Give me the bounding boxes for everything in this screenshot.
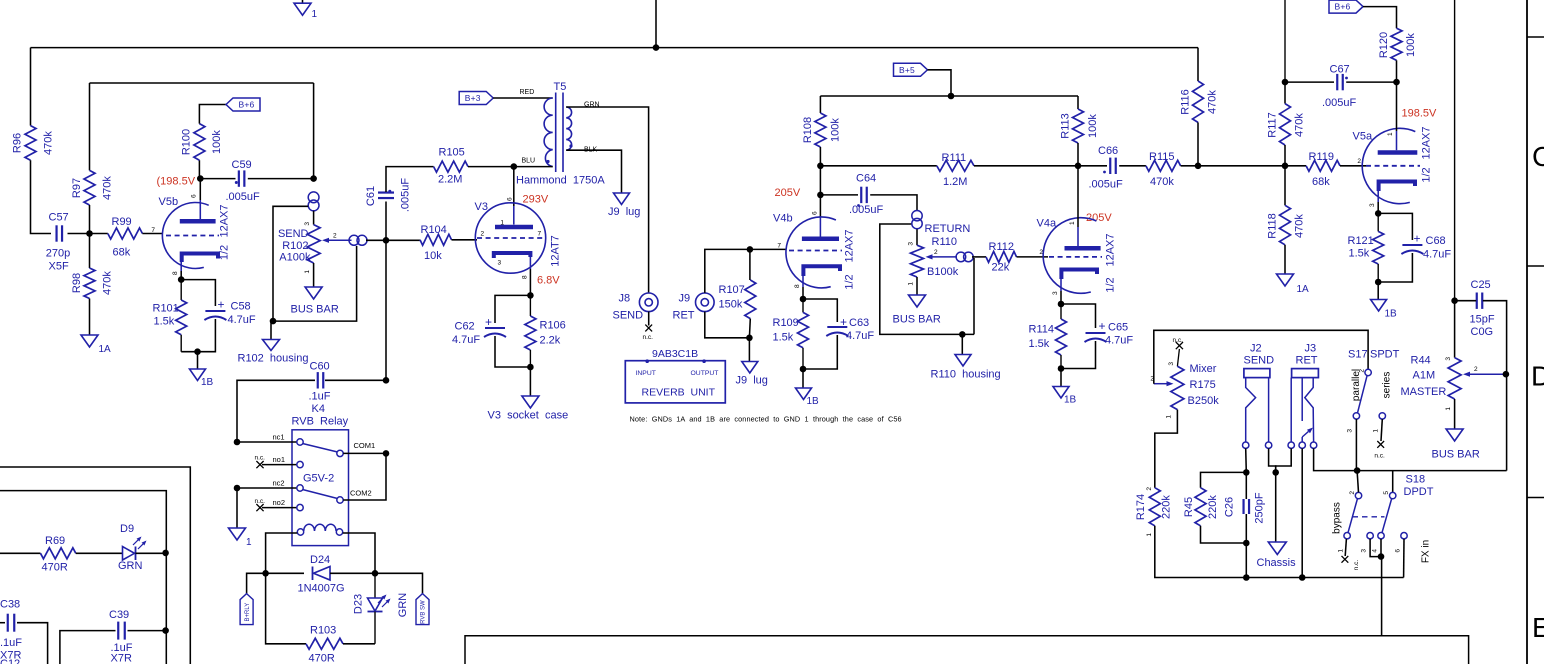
- V4a grid pin 2: [1049, 256, 1102, 258]
- wire S18 pin2 up: [1357, 471, 1358, 493]
- wire to R117 node: [1198, 165, 1285, 167]
- svg-text:GRN: GRN: [397, 593, 409, 618]
- C66 polarity dot: [1103, 171, 1106, 174]
- junction J9 bottom node: [746, 335, 753, 342]
- relay coil K4: [297, 529, 303, 535]
- svg-text:C65: C65: [1108, 322, 1128, 334]
- wire coil right: [343, 533, 375, 573]
- wire V3 ground lead: [529, 367, 531, 396]
- svg-text:6: 6: [1395, 549, 1402, 553]
- wire plate to C59: [200, 178, 235, 180]
- wire J3 ring to bus: [1301, 448, 1303, 577]
- S18 throw 3: [1367, 533, 1373, 539]
- S18 blade b: [1382, 499, 1392, 533]
- svg-text:470k: 470k: [43, 131, 55, 155]
- V4a cathode pin 3: [1061, 270, 1097, 280]
- svg-text:R115: R115: [1149, 151, 1174, 163]
- wire top bus B+ node: [31, 47, 1199, 49]
- svg-text:R102: R102: [282, 240, 308, 252]
- LED D9: [123, 547, 135, 561]
- svg-text:+: +: [218, 298, 225, 312]
- junction coil right node: [372, 570, 379, 577]
- wire R104 to V3 grid: [452, 239, 478, 241]
- svg-text:R98: R98: [71, 273, 83, 293]
- V5a cathode pin 3: [1379, 182, 1415, 192]
- svg-text:2: 2: [481, 231, 485, 238]
- wire R99 to V5b grid: [142, 233, 163, 235]
- svg-text:R111: R111: [942, 152, 967, 164]
- svg-text:1B: 1B: [1385, 309, 1398, 320]
- wire J9 top to V4b grid: [705, 249, 786, 293]
- wire B+ rail: [820, 95, 1078, 97]
- svg-text:1: 1: [1338, 549, 1345, 553]
- junction D9 node: [162, 550, 169, 557]
- wire no1: [262, 464, 297, 466]
- svg-text:12AX7: 12AX7: [219, 204, 231, 237]
- relay blade 1: [303, 444, 338, 453]
- svg-text:A100k: A100k: [279, 252, 311, 264]
- junction com1: [383, 450, 390, 457]
- J2 sleeve contact: [1265, 442, 1271, 448]
- svg-text:R44: R44: [1411, 355, 1431, 367]
- wire send node up: [313, 83, 315, 179]
- junction C60 right: [383, 377, 390, 384]
- svg-text:J3: J3: [1305, 343, 1317, 355]
- capacitor C61: [378, 191, 394, 193]
- svg-text:INPUT: INPUT: [636, 370, 656, 377]
- wire S17 nc stub: [1381, 419, 1382, 441]
- wire shield drain: [273, 206, 308, 321]
- svg-text:150k: 150k: [719, 299, 743, 311]
- S18 gang link dashed: [1353, 516, 1385, 518]
- V5b cathode pin 8: [182, 254, 218, 263]
- svg-text:15pF: 15pF: [1470, 314, 1495, 326]
- svg-text:C38: C38: [0, 599, 20, 611]
- svg-text:C60: C60: [310, 361, 330, 373]
- svg-text:parallel: parallel: [1351, 369, 1362, 401]
- wire R117 top: [1284, 82, 1286, 104]
- wire R112 to V4a grid: [1017, 256, 1049, 258]
- relay contact nc2: [297, 485, 303, 491]
- wire R107 top: [749, 249, 751, 280]
- svg-text:270p: 270p: [46, 248, 70, 260]
- svg-text:B250k: B250k: [1188, 395, 1220, 407]
- junction S18 node: [1378, 553, 1385, 560]
- wire node to R99: [90, 233, 108, 235]
- triode V4a envelope: [1043, 218, 1096, 294]
- svg-text:2: 2: [333, 233, 337, 240]
- svg-text:V3: V3: [475, 201, 488, 213]
- svg-text:68k: 68k: [113, 247, 131, 259]
- V4b plate lead: [819, 217, 821, 237]
- wire plate node: [819, 166, 821, 217]
- wire R118 top: [1284, 166, 1286, 206]
- svg-text:n.c.: n.c.: [255, 498, 266, 505]
- wire R97 top feedback: [90, 82, 314, 84]
- svg-text:8: 8: [172, 271, 179, 275]
- svg-text:C61: C61: [365, 186, 377, 206]
- sheet border: [1526, 0, 1528, 664]
- svg-text:B+6: B+6: [239, 100, 255, 110]
- wire R174 bottom to bus: [1155, 526, 1404, 578]
- V4b grid pin 7: [789, 250, 842, 252]
- svg-text:470k: 470k: [1294, 113, 1306, 137]
- svg-text:R110 housing: R110 housing: [931, 369, 1001, 381]
- resistor R96: [25, 126, 36, 161]
- wire bottom-left inner: [0, 491, 166, 664]
- svg-text:J9 lug: J9 lug: [608, 206, 640, 218]
- svg-text:1A: 1A: [1297, 284, 1310, 295]
- svg-text:1/2: 1/2: [219, 245, 231, 260]
- svg-text:1: 1: [908, 282, 915, 286]
- svg-text:10k: 10k: [424, 250, 442, 262]
- svg-text:OUTPUT: OUTPUT: [691, 370, 719, 377]
- svg-text:1: 1: [312, 9, 318, 20]
- svg-text:198.5V: 198.5V: [1402, 108, 1438, 120]
- wire R103 right: [343, 643, 375, 645]
- net flag RVB SW: [416, 594, 429, 625]
- svg-text:FX in: FX in: [1421, 540, 1432, 563]
- triode V5a envelope: [1362, 128, 1415, 203]
- junction nc1: [234, 439, 241, 446]
- wire R100 bottom: [198, 160, 200, 178]
- svg-text:3: 3: [908, 242, 915, 246]
- svg-text:7: 7: [777, 243, 781, 250]
- S18 throw 1: [1344, 533, 1350, 539]
- svg-text:A1M: A1M: [1413, 370, 1436, 382]
- junction R108 node: [817, 163, 824, 170]
- wire to B+RLY flag: [247, 573, 266, 593]
- svg-text:RED: RED: [520, 89, 535, 96]
- svg-text:1: 1: [1166, 415, 1173, 419]
- wire node to R111: [820, 165, 936, 167]
- svg-text:1/2: 1/2: [1421, 167, 1433, 182]
- svg-text:470k: 470k: [102, 176, 114, 200]
- junction C67 left: [1282, 79, 1289, 86]
- svg-text:R117: R117: [1267, 112, 1279, 137]
- S18 blade a: [1348, 499, 1358, 533]
- svg-text:.005uF: .005uF: [400, 178, 412, 213]
- wire pot pin1 to ground: [313, 263, 315, 287]
- svg-text:2: 2: [1357, 158, 1361, 165]
- svg-text:Chassis: Chassis: [1257, 557, 1297, 569]
- wire V5a ground lead: [1377, 282, 1379, 300]
- wire R108 bottom: [819, 147, 821, 166]
- svg-text:R96: R96: [12, 133, 24, 153]
- resistor R100: [194, 124, 205, 161]
- wire R119 to V5a grid: [1340, 165, 1366, 167]
- svg-text:R121: R121: [1348, 235, 1374, 247]
- svg-text:2: 2: [1146, 487, 1153, 491]
- wire send node down: [385, 240, 387, 380]
- svg-text:2.2k: 2.2k: [540, 335, 561, 347]
- wire J9 bottom: [705, 312, 750, 338]
- S18 throw 6: [1401, 533, 1407, 539]
- jack J8 SEND: [639, 293, 658, 312]
- svg-text:100k: 100k: [1087, 114, 1099, 138]
- wire C67 right: [1346, 81, 1396, 83]
- LED D23: [374, 573, 376, 597]
- V5b grid pin 7: [166, 235, 219, 237]
- svg-text:.005uF: .005uF: [1089, 179, 1124, 191]
- svg-text:470k: 470k: [1294, 214, 1306, 238]
- wire C26 node to bus: [1245, 543, 1247, 578]
- junction C67 right: [1393, 79, 1400, 86]
- svg-text:6: 6: [191, 194, 198, 198]
- S17 throw 3: [1353, 413, 1359, 419]
- wire S18 nc stub: [1345, 539, 1346, 556]
- wire B+3 to T5 RED: [493, 97, 553, 99]
- wire shield to pot: [916, 229, 918, 245]
- svg-text:R109: R109: [773, 317, 799, 329]
- wire R111 right: [974, 165, 1078, 167]
- svg-text:GRN: GRN: [118, 560, 143, 572]
- svg-text:3: 3: [1361, 549, 1368, 553]
- junction bus J3: [1299, 574, 1306, 581]
- C59 polarity dot: [235, 181, 238, 184]
- svg-text:E: E: [1532, 612, 1544, 643]
- wire to R119: [1285, 165, 1306, 167]
- jack J9 RET: [696, 293, 715, 312]
- ground BUS BAR (R110): [909, 295, 926, 307]
- svg-text:REVERB UNIT: REVERB UNIT: [642, 387, 716, 399]
- svg-text:220k: 220k: [1207, 495, 1219, 519]
- junction BLU node: [511, 163, 518, 170]
- svg-text:Note: GNDs 1A and 1B are: Note: GNDs 1A and 1B are connected to GN…: [630, 415, 902, 424]
- svg-text:R103: R103: [310, 625, 336, 637]
- wire C38 left: [0, 622, 5, 624]
- resistor R97: [84, 170, 95, 205]
- wire C63 loop bottom: [803, 335, 837, 369]
- svg-text:R112: R112: [989, 241, 1014, 253]
- svg-text:4: 4: [1372, 549, 1379, 553]
- wire C38 right: [17, 623, 48, 664]
- junction C64 node: [817, 192, 824, 199]
- V4b plate pin 6: [802, 237, 839, 242]
- junction B+5 node: [948, 93, 955, 100]
- svg-text:C67: C67: [1330, 64, 1350, 76]
- wire D9 right: [136, 552, 166, 554]
- wire nc2: [237, 487, 297, 489]
- power flag B+3: [459, 92, 493, 105]
- wire R69 left: [0, 552, 41, 554]
- svg-text:470k: 470k: [1150, 176, 1174, 188]
- resistor R109: [802, 299, 804, 312]
- ground R102 housing: [263, 340, 280, 351]
- svg-text:5: 5: [1383, 491, 1390, 495]
- wire plate V3: [513, 167, 515, 206]
- wire chassis lead: [1275, 472, 1277, 542]
- svg-text:1.5k: 1.5k: [773, 332, 794, 344]
- wire R45 top: [1201, 472, 1247, 487]
- wire B+6 to R120: [1363, 7, 1397, 29]
- wire series link: [1357, 470, 1507, 472]
- C61 polarity dot: [388, 190, 391, 193]
- wire C39 left: [60, 631, 116, 664]
- relay contact no1: [297, 461, 303, 467]
- svg-text:68k: 68k: [1312, 176, 1330, 188]
- svg-text:B+5: B+5: [899, 65, 915, 75]
- ground Chassis: [1268, 542, 1286, 555]
- resistor R105: [434, 161, 468, 172]
- svg-text:+: +: [1414, 232, 1421, 246]
- wire GRN to J8: [566, 107, 648, 293]
- svg-text:C12: C12: [0, 658, 20, 664]
- junction R110 housing: [959, 331, 966, 338]
- wire R96 to C57: [31, 160, 52, 233]
- svg-text:C58: C58: [231, 301, 251, 313]
- junction V5a cathode node: [1375, 210, 1382, 217]
- svg-text:1/2: 1/2: [844, 274, 856, 289]
- ground V3 socket case: [522, 396, 539, 408]
- svg-text:1A: 1A: [99, 344, 112, 355]
- svg-text:4.7uF: 4.7uF: [228, 314, 256, 326]
- V4b cathode pin 8: [803, 266, 840, 276]
- wire D24 left: [266, 572, 304, 574]
- relay contact com2: [337, 497, 343, 503]
- svg-text:3: 3: [498, 260, 502, 267]
- svg-text:1: 1: [1387, 132, 1394, 136]
- svg-text:1N4007G: 1N4007G: [298, 583, 345, 595]
- wire BLU: [514, 166, 553, 168]
- svg-text:C64: C64: [856, 173, 876, 185]
- svg-text:B+RLY: B+RLY: [245, 603, 251, 622]
- svg-text:293V: 293V: [523, 194, 549, 206]
- svg-text:470R: 470R: [309, 653, 335, 664]
- wire V4a ground lead: [1060, 369, 1062, 387]
- svg-text:1: 1: [246, 537, 252, 548]
- svg-text:R106: R106: [540, 320, 566, 332]
- wire to RVB SW flag: [375, 573, 423, 593]
- svg-text:n.c.: n.c.: [255, 455, 266, 462]
- svg-text:SEND: SEND: [613, 310, 644, 322]
- wire C62 loop bottom: [495, 336, 530, 367]
- cable shield symbol (return): [912, 211, 922, 221]
- reverb output terminal: [702, 359, 706, 363]
- wire J3 tip to S17 node: [1314, 448, 1358, 470]
- svg-text:R104: R104: [421, 224, 447, 236]
- svg-text:4.7uF: 4.7uF: [452, 334, 480, 346]
- V5a grid pin 2: [1366, 165, 1420, 167]
- svg-text:G5V-2: G5V-2: [303, 473, 334, 485]
- svg-text:1B: 1B: [807, 396, 820, 407]
- junction R117 node: [1282, 163, 1289, 170]
- svg-text:1.5k: 1.5k: [1349, 248, 1370, 260]
- J3 ring line: [1301, 378, 1303, 421]
- wire to off-page top: [655, 0, 657, 48]
- wire com1: [343, 452, 386, 454]
- svg-text:8: 8: [522, 275, 529, 279]
- relay contact com1: [337, 450, 343, 456]
- svg-text:C25: C25: [1471, 279, 1491, 291]
- svg-text:X7R: X7R: [111, 653, 132, 664]
- T5 primary polarity dot: [546, 160, 549, 163]
- junction top bus: [653, 44, 660, 51]
- wire housing lead: [961, 334, 963, 354]
- svg-text:C: C: [1532, 141, 1544, 172]
- svg-text:R69: R69: [45, 535, 65, 547]
- relay K4 box: [292, 430, 349, 546]
- wire R103 left: [266, 573, 306, 644]
- ground 1B (V4b): [796, 388, 812, 400]
- cable shield symbol: [308, 192, 319, 203]
- svg-text:2.2M: 2.2M: [438, 174, 462, 186]
- svg-text:R97: R97: [71, 178, 83, 198]
- svg-text:X5F: X5F: [49, 261, 69, 273]
- wire B+5 to bus: [928, 70, 952, 96]
- wire C39 right: [128, 630, 166, 632]
- wire C65 loop bottom: [1061, 341, 1096, 369]
- svg-text:12AX7: 12AX7: [1105, 233, 1117, 266]
- wire V5a plate lead: [1396, 82, 1398, 131]
- svg-text:3: 3: [1445, 357, 1452, 361]
- ground 1B (V5a): [1371, 300, 1387, 312]
- svg-text:R105: R105: [439, 147, 465, 159]
- wire to C64: [820, 194, 858, 196]
- relay contact no2: [297, 504, 303, 510]
- svg-text:C68: C68: [1426, 235, 1446, 247]
- svg-text:R108: R108: [802, 117, 814, 143]
- ground J9 lug: [742, 362, 758, 374]
- junction S17 node: [1354, 467, 1361, 474]
- junction V5b bottom: [194, 348, 201, 355]
- svg-text:RET: RET: [673, 310, 695, 322]
- svg-text:C63: C63: [849, 317, 869, 329]
- cable shield symbol: [349, 235, 359, 245]
- J3 normalling arrow: [1302, 431, 1308, 437]
- svg-text:C39: C39: [109, 609, 129, 621]
- junction coil left node: [262, 570, 269, 577]
- svg-text:3: 3: [1168, 362, 1175, 366]
- wire relay left to ground: [236, 488, 238, 528]
- wire mixer pin2 to S17: [1154, 330, 1368, 383]
- svg-text:(198.5V: (198.5V: [157, 176, 196, 188]
- T5 primary winding arcs: [544, 98, 553, 167]
- wire R115 right: [1181, 165, 1198, 167]
- wire S18 node to box: [1381, 557, 1383, 636]
- V4a plate pin 1: [1065, 246, 1101, 251]
- svg-text:nc1: nc1: [273, 433, 285, 442]
- svg-text:8: 8: [794, 284, 801, 288]
- svg-text:100k: 100k: [830, 118, 842, 142]
- ground BUS BAR: [305, 287, 322, 299]
- wire bottom-left outer: [0, 467, 190, 664]
- svg-text:S18: S18: [1406, 474, 1426, 486]
- ground 1A: [81, 335, 98, 347]
- junction V4b grid node: [747, 246, 754, 253]
- wire R108 top: [819, 96, 821, 113]
- relay blade 2: [303, 490, 338, 499]
- J3 tip contact arm: [1305, 378, 1314, 442]
- svg-text:.1uF: .1uF: [309, 391, 331, 403]
- resistor R98: [84, 268, 95, 299]
- wire housing ground lead: [271, 321, 273, 339]
- wire C61 top to R105: [386, 167, 434, 192]
- junction C66 node: [1075, 163, 1082, 170]
- wire R116 bottom: [1197, 122, 1199, 165]
- svg-text:B+3: B+3: [465, 93, 481, 103]
- svg-text:BUS BAR: BUS BAR: [1432, 449, 1480, 461]
- svg-text:RVB SW: RVB SW: [421, 600, 427, 624]
- svg-text:nc2: nc2: [273, 479, 285, 488]
- wire C68 loop top: [1378, 213, 1412, 240]
- wire R98 to ground: [89, 299, 91, 336]
- wire C67 left: [1285, 81, 1334, 83]
- svg-text:V5a: V5a: [1353, 131, 1373, 143]
- wire node to R104: [386, 239, 420, 241]
- wire J3 sleeve to chassis: [1276, 448, 1292, 472]
- wire C60 left to relay: [237, 380, 315, 442]
